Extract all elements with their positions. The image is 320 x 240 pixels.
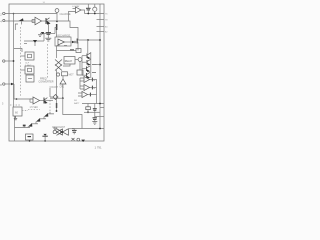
wire B7 riser xyxy=(79,61,81,70)
wire input bus xyxy=(81,56,83,75)
transistor bank Q10 xyxy=(82,53,91,59)
wire dashed block boundary mid xyxy=(47,44,49,78)
wire U8 left riser xyxy=(69,12,73,22)
box B1 oscillator xyxy=(25,52,34,60)
op-amp U5 xyxy=(84,77,90,83)
terminal 6 xyxy=(3,60,5,62)
wire dashed block boundary left xyxy=(20,27,22,96)
wire dash stub left xyxy=(10,104,20,106)
wire diode row xyxy=(24,40,44,42)
wire U2 out xyxy=(65,41,73,43)
wire L stub xyxy=(55,28,57,34)
resistor tick R7 xyxy=(92,72,96,74)
resistor tick R6 xyxy=(92,64,97,66)
capacitor C6 xyxy=(93,104,97,118)
op-amp U1 xyxy=(35,17,42,25)
wire U7 to bus xyxy=(91,94,97,96)
bridge BR1 xyxy=(53,95,58,100)
svg-text:CONVERTER: CONVERTER xyxy=(39,81,54,84)
wire drop to box xyxy=(63,98,82,128)
wire terminal8 line xyxy=(5,83,14,85)
relay K1 xyxy=(64,57,75,65)
box B6 small xyxy=(76,49,81,53)
resistor R8 xyxy=(91,78,93,82)
node dot 100-103 xyxy=(99,103,101,105)
op-amp U8 xyxy=(76,7,82,13)
wire U5 input stubs xyxy=(78,78,84,96)
label pin b xyxy=(64,45,67,47)
capacitor C5 xyxy=(86,4,91,14)
wire row 128 xyxy=(72,128,104,130)
box B8 xyxy=(62,72,68,76)
wire step2 xyxy=(40,118,46,120)
wire Q6 out xyxy=(45,99,53,101)
wire stub under Q1 xyxy=(15,24,18,30)
svg-text:COUNT: COUNT xyxy=(50,86,59,89)
wire Q2 collector drop xyxy=(48,24,50,34)
svg-text:CR1: CR1 xyxy=(60,87,65,89)
box B9 on bottom rail xyxy=(26,134,34,140)
wire right tick 26 xyxy=(97,26,105,28)
capacitor C2 xyxy=(72,130,77,132)
wire dashed block boundary lower xyxy=(49,100,51,112)
wire U4 inputs xyxy=(30,99,33,102)
op-amp U7 xyxy=(82,92,88,98)
wire SCR cathode xyxy=(62,84,64,98)
diode D3 blob xyxy=(81,140,85,142)
wire lamp to node xyxy=(56,12,58,21)
label pin a xyxy=(57,45,60,47)
wire row 116 xyxy=(95,116,104,118)
wire C1 stem xyxy=(47,35,49,38)
node dot corner xyxy=(16,98,18,100)
wire cascade step1 xyxy=(50,112,54,114)
wire step3 xyxy=(32,123,38,125)
wire step3 drop xyxy=(35,122,37,124)
wire U8 out xyxy=(81,10,85,14)
node junction at x57 xyxy=(56,21,58,23)
wire D1 stem xyxy=(34,43,36,46)
capacitor C4 at corner xyxy=(23,125,26,128)
svg-text:RELAY: RELAY xyxy=(65,60,73,63)
wire relay out xyxy=(75,59,78,61)
capacitor C7 xyxy=(93,118,98,122)
wire U5 out xyxy=(90,79,93,81)
box B3 counter xyxy=(26,75,34,82)
resistor R2 under B4 xyxy=(14,116,17,120)
ground G4 xyxy=(92,122,97,125)
wire stub B1 xyxy=(21,55,26,57)
node dot c5 xyxy=(87,13,89,15)
box B7 contact xyxy=(77,70,83,75)
wire bridge link xyxy=(50,96,53,98)
svg-text:1.5 SEC: 1.5 SEC xyxy=(30,107,39,109)
fuse F1 circle xyxy=(77,138,80,141)
svg-text:1 791: 1 791 xyxy=(95,145,102,149)
transistor bank Q12 xyxy=(82,66,90,72)
circle pilot xyxy=(56,73,59,76)
capacitor C3 polarized xyxy=(42,134,47,141)
resistor R11 xyxy=(86,104,91,113)
capacitor C1 xyxy=(46,33,51,35)
svg-text:CHARGE: CHARGE xyxy=(60,12,71,16)
wire V+ rail right xyxy=(99,4,101,129)
terminal 8 xyxy=(3,83,5,85)
node dot rail64 xyxy=(99,64,101,66)
wire dash stub B4 xyxy=(22,110,28,112)
ground G1 xyxy=(45,38,51,41)
wire R1 down to box xyxy=(56,30,58,37)
wire left lower stem xyxy=(15,116,31,141)
transistor bank Q11 xyxy=(82,59,91,65)
wire right tick 31 xyxy=(97,31,105,33)
motor M1 xyxy=(53,129,68,136)
box B5 discharge comparator xyxy=(55,37,71,46)
node dot r11 xyxy=(87,111,89,113)
wire input bus2 xyxy=(79,78,81,89)
wire stub B2 xyxy=(21,69,26,71)
svg-text:DISCHARGE: DISCHARGE xyxy=(56,35,71,38)
diode D1 xyxy=(33,40,37,43)
svg-text:5Ω: 5Ω xyxy=(74,100,77,102)
wire output bus xyxy=(93,80,97,104)
wire rail to B1 xyxy=(14,49,22,53)
op-amp U6 xyxy=(84,85,90,91)
node dot 100-128 xyxy=(99,128,101,130)
ground G3 xyxy=(53,128,57,129)
node dot bottom45 xyxy=(44,140,46,142)
resistor R4 xyxy=(70,49,74,51)
lamp DS2 xyxy=(93,4,97,14)
transistor bank Q13 xyxy=(82,72,90,78)
terminal 2 xyxy=(3,12,5,14)
wire terminal6 line xyxy=(5,60,14,62)
wire mid row xyxy=(57,50,77,52)
node dot rail111 xyxy=(56,110,58,112)
wire base drop xyxy=(87,40,89,54)
lamp DS1 xyxy=(55,9,59,13)
wire riser to collector row xyxy=(43,34,45,42)
wire U4 out xyxy=(40,100,45,102)
wire staircase top xyxy=(57,21,78,40)
wire input line second xyxy=(5,20,35,22)
transistor Q6 xyxy=(44,98,48,104)
box B2 divider xyxy=(25,66,34,74)
transistor Q1 xyxy=(19,18,24,21)
wire SCR anode xyxy=(62,76,64,79)
rail x56 lower xyxy=(56,70,58,111)
node dot ds2 xyxy=(94,13,96,15)
wire U7 out xyxy=(88,94,91,96)
wire U6 out xyxy=(90,87,93,89)
wire motor top xyxy=(69,128,75,130)
node dot 62-98 xyxy=(62,97,64,99)
wire link to bridge xyxy=(49,88,51,97)
wire row 103 xyxy=(82,103,104,105)
transistor Q2 xyxy=(46,18,51,25)
transistor pair Q5 xyxy=(55,65,62,71)
op-amp U2 xyxy=(58,39,65,45)
wire left rail xyxy=(13,14,15,108)
transistor Q9 xyxy=(28,123,32,127)
wire collector row xyxy=(40,33,55,35)
wire U1 inputs xyxy=(32,20,35,23)
wire C2 stem xyxy=(73,129,75,135)
svg-text:RESONANT: RESONANT xyxy=(52,126,65,129)
node dot rail61 xyxy=(13,60,15,62)
wire stub base Q1 xyxy=(21,22,23,25)
wire node row top right xyxy=(85,13,105,15)
transistor Q7 xyxy=(44,113,48,117)
transistor Q3 xyxy=(41,32,45,35)
box B4 timer xyxy=(13,107,22,116)
switch S1 cross xyxy=(72,138,75,141)
transistor pair Q4 xyxy=(55,60,62,66)
wire relay bottom xyxy=(63,64,70,66)
resistor R10 xyxy=(89,93,91,97)
wire U8 inputs xyxy=(73,9,76,12)
wire right tick 19 xyxy=(97,19,105,21)
transistor Q8 xyxy=(36,118,40,122)
wire row 112 xyxy=(84,111,100,113)
svg-text:MOT: MOT xyxy=(69,75,75,77)
resistor R9 xyxy=(91,86,93,90)
lamp DS3 xyxy=(78,58,82,62)
wire D2 down xyxy=(75,42,78,51)
wire tick left xyxy=(24,43,27,45)
wire down and right xyxy=(14,84,33,99)
resistor R3 bar xyxy=(77,39,78,44)
border frame xyxy=(9,4,104,141)
terminal 4 xyxy=(3,19,5,21)
wire join bottom rail xyxy=(27,126,29,129)
wire collector bus right xyxy=(90,52,92,78)
wire step2 drop xyxy=(43,117,45,119)
ground G2 small xyxy=(38,35,42,36)
node dot on base bus xyxy=(87,39,89,41)
wire right tick 107 xyxy=(100,107,104,109)
arrow into node xyxy=(11,83,14,85)
wire horizontal 98 xyxy=(50,97,63,99)
SCR U3 xyxy=(60,79,66,84)
diode D2 xyxy=(72,41,75,43)
op-amp U4 xyxy=(33,97,40,104)
wire base bus to rail xyxy=(78,39,100,41)
node dot rail xyxy=(99,39,101,41)
wire tick to rail xyxy=(97,64,101,66)
wire input line top xyxy=(5,13,57,15)
node dot rail top xyxy=(13,13,15,15)
svg-text:BATT: BATT xyxy=(74,102,80,105)
rail x56 long xyxy=(56,46,58,58)
wire U1 output xyxy=(42,20,58,22)
wire step1b xyxy=(48,113,54,115)
wire U6 to bus xyxy=(93,87,97,89)
resistor R5 on rail xyxy=(56,103,58,108)
resistor R1 dark bar xyxy=(56,24,58,30)
wire dash under U4 xyxy=(28,108,40,110)
node dot bottom30 xyxy=(29,140,31,142)
